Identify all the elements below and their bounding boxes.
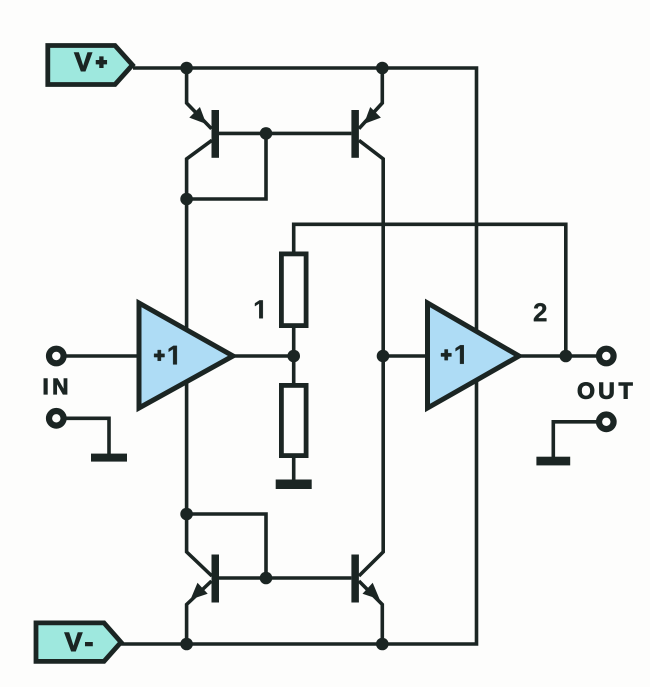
label V- [65,633,92,651]
node dot Q3 base tie [260,572,273,585]
wire V+ rail with right-side power branch down to V- rail [119,68,477,644]
wire resistor R1 to R2 through node 1 [292,328,296,383]
terminal circle IN [49,349,64,364]
wire base line Q1-Q2 [219,132,351,136]
wire Q2 emitter from V+ rail [359,68,382,129]
wire base line Q3-Q4 [219,576,351,580]
transistor Q2 emitter arrow [364,107,381,124]
wire buffer A2 output to OUT [519,354,597,358]
transistor Q1 (PNP) base bar [212,110,220,158]
node label 1 [255,300,263,318]
wire R2 to ground [292,458,296,481]
power flag V+ [48,46,133,85]
wire IN to buffer A1 [66,354,139,358]
node dot output / feedback [560,350,573,363]
transistor Q4 emitter arrow [363,583,380,600]
power flag V- [36,623,121,662]
wire mirror node to buffer A2 input [383,354,429,358]
ground bar OUT reference [536,457,570,466]
wire top mirror base-collector tie loop [187,133,266,199]
node dot Q1 collector tie [180,193,193,206]
wire feedback from node 1 over to output node [294,224,566,356]
resistor R1 [281,254,306,326]
node dot V- rail / Q4 emitter [376,638,389,651]
transistor Q4 (NPN) base bar [351,555,359,603]
node dot V+ rail / Q1 emitter [180,62,193,75]
wire Q1 emitter from V+ rail [187,68,212,129]
node dot V- rail / Q3 emitter [180,638,193,651]
wire OUT ground reference [553,422,596,458]
buffer A2 gain label +1 [441,345,464,364]
wire Q2 collector down through node to Q4 collector [359,140,383,576]
transistor Q3 (NPN) base bar [212,555,220,603]
terminal circle OUT [599,349,614,364]
buffer A1 gain label +1 [154,346,177,365]
label OUT [578,383,632,399]
wire Q3 emitter to V- rail [187,581,212,644]
node dot Q1 base tie [260,127,273,140]
transistor Q2 (PNP) base bar [351,110,359,158]
terminal circle OUT ground reference [599,415,614,430]
terminal circle IN ground reference [49,411,64,426]
transistor Q3 emitter arrow [191,583,208,600]
ground bar under R2 [276,480,312,490]
buffer amplifier A1 (+1) [139,303,233,408]
wire Q4 emitter to V- rail [359,581,382,644]
wire Q1 collector down through buffer A1 supply to Q3 collector [187,140,212,576]
label V+ [74,53,106,71]
node dot V+ rail / Q2 emitter [376,62,389,75]
wire bottom mirror collector-base tie loop [187,514,266,578]
node dot mirror output / buffer A2 input [377,350,390,363]
buffer amplifier A2 (+1) [428,303,520,408]
node label 2 [534,303,547,321]
node dot Q3 collector tie [180,508,193,521]
wire IN ground reference [67,418,110,454]
wire buffer A1 output to node 1 [233,354,294,358]
transistor Q1 emitter arrow [189,107,206,124]
ground bar IN reference [91,454,127,462]
label IN [44,379,67,394]
node dot 1: buffer A1 output / resistor junction [287,350,300,363]
resistor R2 [281,385,306,455]
